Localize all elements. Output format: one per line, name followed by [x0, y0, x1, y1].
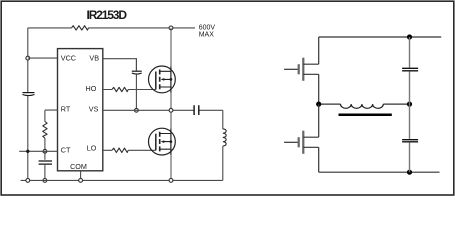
wire half-bridge vertical	[170, 28, 172, 181]
svg-text:600V: 600V	[199, 24, 216, 31]
capacitor C1 VCC bypass	[23, 92, 35, 94]
resistor R3 (HO gate)	[112, 87, 128, 91]
svg-text:LO: LO	[87, 144, 97, 153]
wire RT pin	[45, 110, 58, 121]
wire CT pin	[19, 150, 57, 152]
node low-side source / ground	[169, 179, 173, 183]
node top rail / cap branch	[407, 34, 412, 39]
node midpoint right	[407, 102, 412, 107]
node left vertical / ground	[26, 179, 30, 183]
svg-text:IR2153D: IR2153D	[87, 8, 128, 22]
svg-text:HO: HO	[86, 84, 97, 93]
wire Q3 source to midpoint	[318, 74, 320, 104]
wire Q3 drain	[318, 37, 320, 64]
svg-text:VS: VS	[89, 104, 99, 113]
wire inductor to ground rail	[222, 146, 224, 180]
wire midpoint (right)	[319, 103, 410, 105]
node bootstrap cap / VS wire	[135, 108, 139, 112]
transistor Q3 (upper, simplified)	[284, 58, 319, 81]
node midpoint left	[316, 102, 321, 107]
wire Q4 drain	[318, 104, 320, 137]
wire COM pin	[80, 171, 82, 181]
inductor L2 (resonant)	[341, 104, 384, 108]
wire top rail	[28, 27, 195, 29]
svg-text:CT: CT	[61, 145, 71, 154]
resistor R2 (RT)	[43, 122, 47, 139]
wire resistor to CT node	[44, 138, 46, 151]
wire VS pin	[103, 110, 223, 129]
inductor L1 (load coil)	[223, 129, 226, 146]
wire top rail (right)	[319, 36, 442, 38]
core bar	[339, 114, 392, 117]
node VS / half-bridge midpoint	[169, 108, 173, 112]
node VCC junction	[26, 56, 30, 60]
capacitor C2 (CT)	[44, 151, 46, 160]
svg-text:COM: COM	[70, 162, 87, 171]
wire Q4 source	[318, 147, 320, 172]
resistor R4 (LO gate)	[112, 148, 128, 152]
transistor Q1 (high-side MOSFET)	[149, 66, 176, 93]
transistor Q4 (lower, simplified)	[284, 131, 319, 154]
node bottom rail / cap branch	[407, 170, 412, 175]
capacitor C3 bootstrap	[132, 70, 142, 72]
wire VCC pin	[28, 57, 58, 59]
node CT cap / ground rail	[43, 179, 47, 183]
transistor Q2 (low-side MOSFET)	[149, 128, 176, 155]
wire bottom ground rail	[21, 179, 223, 181]
wire LO pin	[103, 149, 156, 151]
wire bottom rail (right)	[319, 171, 440, 173]
capacitor C6 (lower right)	[402, 140, 418, 142]
wire HO pin	[103, 89, 156, 91]
junction dot CT wire / left vertical	[26, 150, 29, 153]
node COM / ground	[79, 179, 83, 183]
wire left vertical (VCC branch)	[27, 28, 29, 181]
svg-text:VCC: VCC	[61, 54, 76, 63]
svg-text:VB: VB	[89, 54, 99, 63]
capacitor C4 (series DC-block)	[194, 105, 199, 115]
svg-text:MAX: MAX	[199, 31, 215, 38]
wire right cap branch	[409, 37, 411, 172]
wire VB pin to bootstrap cap	[103, 59, 137, 71]
resistor R1	[72, 26, 89, 30]
svg-text:RT: RT	[61, 105, 71, 114]
node top-rail / half-bridge	[169, 26, 173, 30]
op-amp U1 IR2153D box	[58, 49, 103, 171]
node RT/CT	[43, 149, 47, 153]
capacitor C5 (upper right)	[402, 68, 418, 71]
